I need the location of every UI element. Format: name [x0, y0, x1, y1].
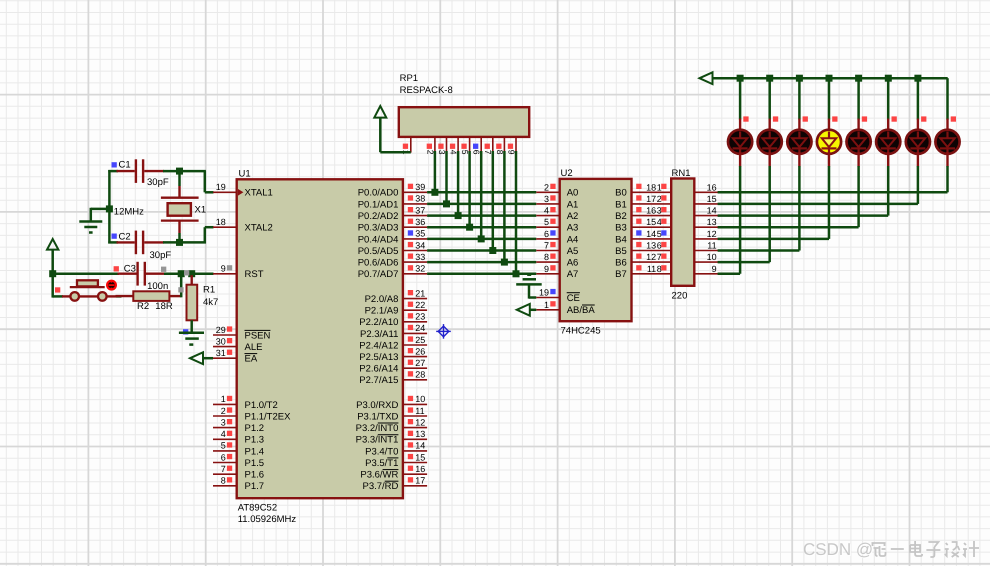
svg-text:A5: A5: [567, 246, 579, 257]
wire RP1 column 7: [492, 151, 495, 251]
led D8: [946, 119, 948, 131]
svg-text:6: 6: [221, 452, 226, 462]
svg-text:P3.1/TXD: P3.1/TXD: [357, 411, 398, 422]
svg-text:XTAL1: XTAL1: [245, 188, 273, 199]
wire RN1 to LED D2: [718, 261, 770, 264]
svg-text:19: 19: [539, 288, 549, 298]
wire RP1 column 5: [468, 151, 471, 227]
svg-text:RST: RST: [245, 269, 264, 280]
wire VCC to LED D6: [887, 78, 890, 119]
svg-text:21: 21: [415, 288, 425, 298]
pin 26 P2.5: [403, 356, 427, 358]
svg-text:4k7: 4k7: [203, 297, 218, 308]
state square button-vcc: [55, 287, 60, 292]
wire VCC to LED D4: [828, 78, 831, 119]
svg-text:12: 12: [646, 252, 656, 262]
node X1 top junction: [176, 168, 183, 175]
pin 5 P1.4: [213, 450, 237, 452]
resistor R1: [190, 275, 192, 285]
pin 13 B5 / RN1 pin 6: [632, 250, 672, 252]
pin 9 RN1: [694, 273, 718, 275]
svg-text:25: 25: [415, 335, 425, 345]
pin 16 RN1: [694, 191, 718, 193]
svg-text:7: 7: [544, 241, 549, 251]
wire C3 to RST pin: [164, 272, 214, 275]
wire RP1 column 4: [457, 151, 460, 216]
svg-text:P3.2/INT0: P3.2/INT0: [356, 423, 399, 434]
svg-text:5: 5: [657, 229, 662, 239]
wire RN1 to LED D3: [718, 249, 800, 252]
pin 15 RN1: [694, 203, 718, 205]
svg-text:12: 12: [415, 417, 425, 427]
pin 32 P0.7: [403, 273, 427, 275]
svg-text:3: 3: [544, 194, 549, 204]
svg-text:13: 13: [707, 217, 717, 227]
svg-text:14: 14: [415, 441, 425, 451]
pin 8 P1.7: [213, 485, 237, 487]
capacitor C2: [117, 241, 135, 243]
led D6: [887, 119, 889, 131]
svg-text:17: 17: [415, 476, 425, 486]
svg-text:9: 9: [712, 264, 717, 274]
wire RP1 column 3: [445, 151, 448, 204]
pin 28 P2.7: [403, 379, 427, 381]
resistor network RN1 body: [671, 179, 694, 286]
node LED rail junction 4: [826, 75, 833, 82]
pin 6 RP1: [480, 137, 482, 152]
pin 23 P2.2: [403, 321, 427, 323]
led D3: [798, 119, 800, 131]
pin 12 B6 / RN1 pin 7: [632, 261, 672, 263]
wire C2 to XTAL2: [163, 241, 206, 244]
wire LED D8 cathode: [946, 166, 949, 192]
node LED rail junction 7: [914, 75, 921, 82]
svg-text:1: 1: [221, 394, 226, 404]
wire LED rail: [713, 77, 948, 80]
wire AD1 bus row: [427, 203, 536, 206]
state square LED D6: [892, 116, 897, 121]
pin 5 RP1: [469, 137, 471, 152]
wire VCC to LED D1: [739, 78, 742, 119]
svg-text:U2: U2: [561, 168, 573, 179]
wire rail to C2: [108, 241, 118, 244]
svg-text:AT89C52: AT89C52: [238, 503, 277, 514]
wire C1 to XTAL1: [163, 170, 206, 173]
state square LED D1: [743, 116, 748, 121]
svg-text:U1: U1: [239, 169, 251, 180]
wire AD3 bus row: [427, 226, 536, 229]
pin 2 RP1: [434, 137, 436, 152]
wire AD2 bus row: [427, 214, 536, 217]
pin 2 P1.1: [213, 415, 237, 417]
svg-text:11: 11: [647, 264, 656, 274]
svg-text:P0.6/AD6: P0.6/AD6: [358, 258, 399, 269]
ic U2 body: [560, 179, 632, 321]
state square RST net gray: [184, 270, 189, 275]
svg-text:30pF: 30pF: [147, 177, 169, 188]
svg-text:2: 2: [221, 406, 226, 416]
node AD5 junction: [489, 247, 496, 254]
pin 16 P3.6: [403, 473, 427, 475]
pin 11 B7 / RN1 pin 8: [632, 273, 672, 275]
svg-text:P2.5/A13: P2.5/A13: [359, 352, 398, 363]
svg-text:38: 38: [415, 194, 425, 204]
pin 4 A2: [536, 215, 559, 217]
pin 3 P1.2: [213, 427, 237, 429]
svg-text:13: 13: [646, 241, 656, 251]
svg-text:10: 10: [707, 252, 717, 262]
svg-text:39: 39: [415, 182, 425, 192]
wire C1-C2 left rail: [108, 170, 111, 244]
state square C2: [112, 234, 117, 239]
pin 17 B1 / RN1 pin 2: [632, 203, 672, 205]
svg-text:C1: C1: [119, 159, 131, 170]
svg-text:B0: B0: [615, 188, 627, 199]
svg-text:P3.6/WR: P3.6/WR: [360, 470, 398, 481]
svg-text:P0.3/AD3: P0.3/AD3: [358, 223, 399, 234]
wire RP1 column 2: [434, 151, 437, 192]
led D7: [917, 119, 919, 131]
svg-text:33: 33: [415, 252, 425, 262]
svg-text:RN1: RN1: [672, 168, 691, 179]
svg-text:24: 24: [415, 323, 425, 333]
svg-text:P0.7/AD7: P0.7/AD7: [358, 269, 399, 280]
node LED rail junction 1: [737, 75, 744, 82]
svg-text:19: 19: [216, 182, 226, 192]
svg-text:P0.5/AD5: P0.5/AD5: [358, 246, 399, 257]
svg-text:15: 15: [415, 452, 425, 462]
svg-text:RP1: RP1: [400, 73, 418, 84]
pin 6 P1.5: [213, 462, 237, 464]
svg-text:P2.1/A9: P2.1/A9: [365, 306, 399, 317]
pin 18 B0 / RN1 pin 1: [632, 191, 672, 193]
state square LED D2: [773, 116, 778, 121]
svg-text:P2.7/A15: P2.7/A15: [359, 375, 398, 386]
svg-text:29: 29: [216, 325, 226, 335]
svg-text:6: 6: [657, 241, 662, 251]
push button: [62, 295, 71, 297]
wire AD5 bus row: [427, 249, 536, 252]
svg-text:8: 8: [544, 252, 549, 262]
state square C3 left: [114, 266, 119, 271]
pin 11 RN1: [694, 250, 718, 252]
wire RP1 column 6: [480, 151, 483, 239]
wire RST row left: [53, 272, 119, 275]
svg-text:P2.6/A14: P2.6/A14: [359, 364, 398, 375]
svg-text:P3.0/RXD: P3.0/RXD: [356, 400, 398, 411]
svg-text:A6: A6: [567, 258, 579, 269]
node X1 bottom junction: [176, 239, 183, 246]
resistor R2: [116, 295, 134, 297]
node LED rail junction 2: [766, 75, 773, 82]
svg-text:RESPACK-8: RESPACK-8: [400, 85, 453, 96]
pin 31 EA: [213, 357, 237, 359]
svg-text:9: 9: [544, 264, 549, 274]
svg-text:P0.4/AD4: P0.4/AD4: [358, 234, 399, 245]
power arrow VCC reset: [47, 239, 58, 250]
pin 1 ABBA: [536, 309, 559, 311]
wire AD7 bus row: [427, 273, 536, 276]
ic U1 body: [237, 179, 403, 498]
node AD3 junction: [466, 224, 473, 231]
svg-text:36: 36: [415, 217, 425, 227]
pin 30 ALE: [213, 346, 237, 348]
svg-text:A7: A7: [567, 269, 579, 280]
pin 7 A5: [536, 250, 559, 252]
wire VCC to LED D2: [768, 78, 771, 119]
svg-text:X1: X1: [195, 205, 207, 216]
svg-text:14: 14: [646, 229, 656, 239]
state square LED D4: [832, 116, 837, 121]
crystal X1: [178, 170, 181, 186]
svg-text:P1.5: P1.5: [245, 458, 265, 469]
pin 9 RP1: [515, 137, 517, 152]
wire ground branch: [91, 208, 110, 211]
svg-text:P1.4: P1.4: [245, 446, 265, 457]
wire LED D4 cathode: [828, 166, 831, 239]
state square R2 gray: [178, 287, 183, 292]
pin 8 RP1: [503, 137, 505, 152]
pin 13 RN1: [694, 226, 718, 228]
pin 9 RST: [213, 273, 237, 275]
wire RN1 to LED D5: [718, 226, 859, 229]
pin 19 CE: [536, 297, 559, 299]
wire RP1 column 8: [503, 151, 506, 262]
svg-text:3: 3: [221, 417, 226, 427]
pin 34 P0.5: [403, 250, 427, 252]
svg-text:C3: C3: [124, 264, 136, 275]
svg-text:15: 15: [707, 194, 717, 204]
pin 11 P3.1: [403, 415, 427, 417]
svg-text:A2: A2: [567, 211, 579, 222]
pin 25 P2.4: [403, 344, 427, 346]
origin marker: [436, 324, 451, 339]
svg-text:B7: B7: [615, 269, 627, 280]
svg-text:11: 11: [707, 241, 716, 251]
wire RN1 to LED D1: [718, 273, 741, 276]
svg-text:32: 32: [415, 264, 425, 274]
respack RP1 body: [399, 107, 529, 137]
pin 14 RN1: [694, 215, 718, 217]
wire LED D2 cathode: [768, 166, 771, 262]
ground (crystal): [79, 220, 102, 223]
svg-text:A0: A0: [567, 188, 579, 199]
pin 6 A4: [536, 238, 559, 240]
pin 16 B2 / RN1 pin 3: [632, 215, 672, 217]
pin 27 P2.6: [403, 367, 427, 369]
svg-text:P1.7: P1.7: [245, 481, 265, 492]
pin 8 A6: [536, 261, 559, 263]
svg-text:9: 9: [221, 264, 226, 274]
pin 35 P0.4: [403, 238, 427, 240]
svg-text:B2: B2: [615, 211, 627, 222]
svg-text:12: 12: [707, 229, 717, 239]
svg-text:B1: B1: [615, 199, 627, 210]
wire RN1 to LED D8: [718, 191, 948, 194]
power arrow AB/BA: [517, 304, 530, 316]
svg-text:11.05926MHz: 11.05926MHz: [238, 514, 297, 525]
svg-text:16: 16: [707, 182, 717, 192]
node AD2 junction: [455, 212, 462, 219]
svg-text:P2.2/A10: P2.2/A10: [359, 317, 398, 328]
svg-text:37: 37: [415, 205, 425, 215]
pin 14 P3.4: [403, 450, 427, 452]
wire RN1 to LED D7: [718, 203, 918, 206]
svg-text:XTAL2: XTAL2: [245, 223, 273, 234]
led D2: [769, 119, 771, 131]
wire LED D5 cathode: [857, 166, 860, 227]
wire RN1 to LED D6: [718, 214, 889, 217]
node AD6 junction: [501, 259, 508, 266]
pin 1 P1.0: [213, 403, 237, 405]
wire AD0 bus row: [427, 191, 536, 194]
pin 10 RN1: [694, 261, 718, 263]
svg-text:10: 10: [415, 394, 425, 404]
svg-text:P2.4/A12: P2.4/A12: [359, 340, 398, 351]
pin 37 P0.2: [403, 215, 427, 217]
pin 17 P3.7: [403, 485, 427, 487]
svg-text:27: 27: [415, 358, 425, 368]
pin 38 P0.1: [403, 203, 427, 205]
power arrow EA: [190, 352, 203, 364]
pin 29 PSEN: [213, 334, 237, 336]
svg-text:AB/BA: AB/BA: [567, 305, 596, 316]
svg-text:12MHz: 12MHz: [114, 207, 144, 218]
pin 7 P1.6: [213, 473, 237, 475]
state square C1: [112, 162, 117, 167]
svg-text:P3.4/T0: P3.4/T0: [365, 446, 398, 457]
svg-text:A4: A4: [567, 234, 579, 245]
watermark CSDN: [803, 540, 873, 559]
svg-text:16: 16: [415, 464, 425, 474]
node AD0 junction: [431, 189, 438, 196]
state square LED D3: [803, 116, 808, 121]
state square LED D5: [862, 116, 867, 121]
svg-text:B5: B5: [615, 246, 627, 257]
svg-text:13: 13: [415, 429, 425, 439]
power arrow LED rail: [700, 72, 713, 84]
pin 3 RP1: [446, 137, 448, 152]
svg-text:4: 4: [544, 206, 549, 216]
svg-text:P1.0/T2: P1.0/T2: [245, 400, 278, 411]
svg-text:3: 3: [657, 206, 662, 216]
node AD7 junction: [513, 270, 520, 277]
svg-text:P3.3/INT1: P3.3/INT1: [356, 435, 399, 446]
pin 12 P3.2: [403, 427, 427, 429]
svg-text:R2: R2: [137, 301, 149, 312]
svg-text:4: 4: [221, 429, 226, 439]
svg-text:P1.6: P1.6: [245, 470, 265, 481]
wire LED D3 cathode: [798, 166, 801, 251]
svg-text:18: 18: [646, 182, 656, 192]
led D5: [857, 119, 859, 131]
wire RN1 to LED D4: [718, 238, 829, 241]
wire LED D7 cathode: [917, 166, 920, 204]
pin 9 A7: [536, 273, 559, 275]
svg-text:CE: CE: [567, 293, 580, 304]
pin 15 B3 / RN1 pin 4: [632, 226, 672, 228]
svg-text:P1.2: P1.2: [245, 423, 265, 434]
pin 18 XTAL2: [213, 226, 237, 228]
pin 2 A0: [536, 191, 559, 193]
wire RP1 column 9: [515, 151, 518, 274]
svg-text:2: 2: [544, 182, 549, 192]
svg-text:P0.0/AD0: P0.0/AD0: [358, 188, 399, 199]
svg-text:220: 220: [672, 291, 688, 302]
svg-text:2: 2: [657, 194, 662, 204]
pin 15 P3.5: [403, 462, 427, 464]
node LED rail junction 5: [855, 75, 862, 82]
node AD4 junction: [478, 235, 485, 242]
svg-text:P1.1/T2EX: P1.1/T2EX: [245, 411, 292, 422]
svg-text:18: 18: [216, 217, 226, 227]
wire LED D6 cathode: [887, 166, 890, 216]
state square LED D8: [951, 116, 956, 121]
state square LED D7: [921, 116, 926, 121]
svg-text:35: 35: [415, 229, 425, 239]
svg-text:P2.0/A8: P2.0/A8: [365, 294, 399, 305]
svg-text:P0.1/AD1: P0.1/AD1: [358, 199, 399, 210]
svg-text:7: 7: [657, 252, 662, 262]
state square C3 right gray: [161, 267, 166, 272]
pin 22 P2.1: [403, 309, 427, 311]
wire LED D1 cathode: [739, 166, 742, 274]
svg-text:22: 22: [415, 300, 425, 310]
pin 39 P0.0: [403, 191, 427, 193]
pin 12 RN1: [694, 238, 718, 240]
wire button to R2: [117, 295, 122, 298]
wire AD6 bus row: [427, 261, 536, 264]
svg-text:8: 8: [657, 264, 662, 274]
pin 1 RP1: [410, 137, 412, 153]
svg-text:P3.5/T1: P3.5/T1: [365, 458, 398, 469]
svg-text:1: 1: [544, 300, 549, 310]
svg-text:ALE: ALE: [245, 342, 263, 353]
pin 4 P1.3: [213, 438, 237, 440]
capacitor C3: [118, 273, 138, 275]
pin 13 P3.3: [403, 438, 427, 440]
svg-text:CSDN @: CSDN @: [803, 540, 873, 559]
led D4: [828, 119, 830, 131]
svg-text:5: 5: [221, 441, 226, 451]
node LED rail junction 6: [885, 75, 892, 82]
node rail-ground junction: [106, 205, 113, 212]
wire rail to C1: [108, 170, 118, 173]
state square R1 bottom blue: [183, 329, 188, 334]
led D1: [739, 119, 741, 131]
svg-text:8: 8: [221, 476, 226, 486]
wire VCC to LED D8: [946, 78, 949, 119]
node AD1 junction: [443, 200, 450, 207]
svg-text:34: 34: [415, 240, 425, 250]
svg-text:6: 6: [544, 229, 549, 239]
pin 5 A3: [536, 226, 559, 228]
pin 3 A1: [536, 203, 559, 205]
pin 10 P3.0: [403, 403, 427, 405]
pin 14 B4 / RN1 pin 5: [632, 238, 672, 240]
svg-text:C2: C2: [119, 232, 131, 243]
svg-text:74HC245: 74HC245: [561, 326, 601, 337]
svg-text:17: 17: [646, 194, 656, 204]
ground (CE): [528, 284, 531, 298]
svg-text:11: 11: [415, 406, 424, 416]
svg-text:B4: B4: [615, 234, 627, 245]
node R1 junction: [188, 270, 195, 277]
capacitor C1: [117, 170, 135, 172]
svg-text:5: 5: [544, 217, 549, 227]
node R2 junction: [178, 270, 185, 277]
svg-text:P3.7/RD: P3.7/RD: [362, 481, 398, 492]
